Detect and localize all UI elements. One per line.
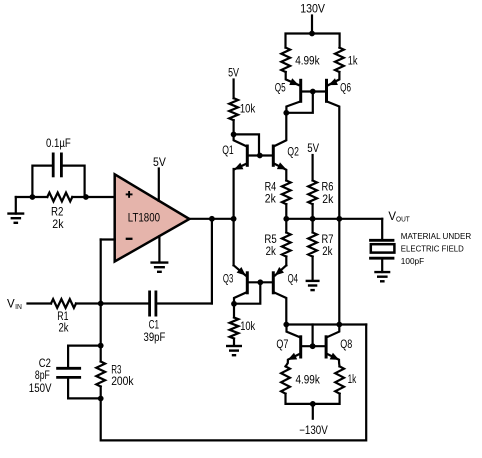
svg-text:R7: R7 [322,234,334,246]
svg-text:4.99k: 4.99k [295,56,320,68]
svg-text:Q5: Q5 [275,82,286,94]
transistor Q1 [246,145,249,167]
svg-text:ELECTRIC FIELD: ELECTRIC FIELD [401,244,464,254]
wire R4 bottom [285,204,287,219]
wire -130V stub [312,404,314,419]
wire Q1-Q2 base [249,154,272,156]
transistor Q4 [272,271,275,294]
wire Q1 collector-base tie [234,134,259,155]
svg-text:8pF: 8pF [35,370,50,382]
wire plus-input right seg [72,196,114,198]
wire 5V stub R6 [312,155,314,181]
wire Q8 collector [327,325,339,338]
node R2 right [83,194,89,200]
arrow Q8 emitter [330,353,340,360]
svg-text:IN: IN [15,302,22,311]
node R6/R7 [310,216,316,222]
resistor R7 2k [308,233,317,257]
wire Q4 emitter [275,265,286,275]
transistor Q7 [299,335,302,358]
node R4/R5 [283,216,289,222]
wire Q1 collector [234,134,246,146]
node R3/C2 top [98,343,104,349]
wire Q3 collector [234,293,246,304]
node Q8 collector [336,322,342,328]
svg-text:R4: R4 [265,181,277,193]
wire R1 to node [76,302,148,304]
op-amp minus sign [126,238,133,240]
wire top rail [286,34,340,48]
wire R3 top [100,346,102,362]
wire mid rail to VOUT [286,218,382,220]
svg-text:2k: 2k [266,246,276,258]
svg-text:OUT: OUT [396,214,410,223]
wire Q3 emitter [234,265,246,275]
node Q3-Q4 base [257,279,263,285]
wire cap branch right [63,166,85,197]
wire minus input [101,238,115,240]
svg-text:2k: 2k [265,194,276,206]
transistor Q2 [272,145,275,167]
transistor Q6 [325,79,328,103]
wire C2 bottom branch [68,379,101,399]
svg-text:Q4: Q4 [288,273,299,285]
svg-text:Q7: Q7 [276,339,288,351]
ground (R2 input) [7,214,24,223]
svg-text:150V: 150V [29,383,52,395]
wire ground stem R2 [15,197,17,214]
piezo crystal body [371,244,395,252]
svg-text:Q8: Q8 [340,339,352,351]
resistor 10k (lower) [230,318,239,339]
svg-text:R2: R2 [51,207,63,219]
wire Q3c to 10k [233,304,235,318]
resistor R2 2k [47,193,72,202]
svg-text:1k: 1k [348,374,357,386]
svg-text:MATERIAL UNDER: MATERIAL UNDER [401,231,471,241]
wire Q1 emitter [234,164,246,169]
wire C1 to feedback [157,302,212,304]
wire Q7-Q8 base tie-up [312,325,314,347]
wire cap branch left [32,166,52,197]
svg-text:−130V: −130V [299,425,328,437]
node Q5-Q6 base [310,89,316,95]
svg-text:100pF: 100pF [401,256,424,266]
svg-text:C1: C1 [149,320,159,332]
wire Q2 collector [275,113,287,146]
svg-text:5V: 5V [228,68,239,80]
wire 130V stub [311,16,313,34]
wire left rail (Q1e-out-Q3e) [233,169,235,265]
wire R7 top [312,219,314,233]
wire Q5 collector [286,102,300,113]
wire Q6 emitter [329,72,340,85]
wire R7 to ground [312,257,314,281]
node rail/VOUT [336,216,342,222]
node R3/C2 bottom [98,396,104,402]
arrow Q5 emitter [289,78,299,85]
node Q7 collector [283,322,289,328]
svg-text:V: V [7,298,15,310]
wire bottom rail [286,394,340,404]
resistor 4.99k (bottom) [281,366,290,393]
wire 10k to Q1 node [233,120,235,134]
wire Q7 collector [287,325,300,338]
wire Q5-Q6 base [302,90,325,92]
wire Q6 collector rail [327,102,339,325]
capacitor C2 plate bottom [56,376,81,379]
node Q1-Q2 base [257,153,263,159]
wire Q3-Q4 base [249,281,272,283]
arrow Q4 emitter [275,267,284,276]
wire base tie-down [286,92,313,113]
svg-text:10k: 10k [240,104,256,116]
svg-text:5V: 5V [153,157,166,169]
wire R3 bottom [100,387,102,399]
wire R6 bottom [312,204,314,219]
piezo top plate [369,239,394,242]
wire C2 top branch [68,346,101,367]
capacitor C1 plate left [148,291,151,317]
svg-text:2k: 2k [52,219,63,231]
svg-text:5V: 5V [307,143,319,155]
arrow Q3 emitter [237,267,246,276]
svg-text:0.1µF: 0.1µF [46,138,71,150]
resistor 10k (upper) [229,98,238,120]
ground (piezo) [374,272,390,281]
node top rail junction [309,31,315,37]
arrow Q6 emitter [328,78,338,85]
resistor R1 2k [51,299,76,308]
svg-text:2k: 2k [322,246,332,258]
node output/rail [231,216,237,222]
wire op-amp 5V pin [158,169,160,201]
wire feedback vertical (C1) [211,219,213,304]
svg-text:R5: R5 [264,234,276,246]
wire inverting vertical [100,240,102,346]
svg-text:200k: 200k [111,376,134,388]
wire Q2 emitter [275,164,286,181]
capacitor 0.1uF plate left [52,153,55,178]
wire Q4 collector [275,293,287,325]
resistor R4 2k [282,181,291,205]
resistor 4.99k (top) [281,48,290,72]
svg-text:10k: 10k [240,321,255,333]
svg-text:Q1: Q1 [222,145,234,157]
wire Q3 base tie [234,282,260,303]
resistor R6 2k [308,181,317,205]
node Q3 collector tie [231,301,237,307]
svg-text:Q2: Q2 [287,147,299,159]
svg-text:Q6: Q6 [340,82,351,94]
op-amp plus sign [126,191,133,198]
svg-text:4.99k: 4.99k [296,375,321,387]
resistor R5 2k [282,233,291,257]
wire VIN lead [28,302,52,304]
wire plus-input left seg [16,196,48,198]
node Q7-Q8 base [310,343,316,349]
resistor R3 200k [96,362,105,387]
svg-text:R1: R1 [57,311,68,323]
op-amp U1 LT1800 body [115,174,190,261]
wire Q5 emitter [286,72,299,85]
resistor 1k (bottom) [335,366,344,393]
node output/C1 feedback [209,216,215,222]
node Q1 collector [231,132,237,138]
svg-text:Q3: Q3 [223,273,233,285]
svg-text:130V: 130V [300,4,325,16]
wire piezo to ground [381,260,383,273]
arrow Q7 emitter [288,353,298,360]
node VIN/inverting [98,301,104,307]
wire VOUT drop [381,219,383,239]
wire Q8 emitter [327,354,339,366]
arrow Q1 emitter [234,163,244,170]
node bottom rail [310,401,316,407]
wire feedback loop [101,325,367,441]
svg-text:R3: R3 [111,365,121,377]
svg-text:LT1800: LT1800 [128,212,160,224]
node R2 left [30,194,36,200]
wire op-amp gnd pin [158,236,160,262]
ground (op-amp) [150,263,168,272]
wire Q7-Q8 base [302,345,324,347]
transistor Q5 [299,79,302,103]
wire op-amp output [189,218,233,220]
ground (lower 10k) [226,346,242,355]
wire R5 to Q4 emitter [285,257,287,266]
wire 5V stub to 10k [233,80,235,99]
capacitor C2 plate top [56,367,81,370]
svg-text:C2: C2 [39,358,51,370]
wire Q4c horizontal [286,323,366,325]
arrow Q2 emitter [277,162,287,169]
wire 10k to ground [233,339,235,346]
capacitor 0.1uF plate right [60,153,63,178]
svg-text:1k: 1k [348,56,358,68]
capacitor C1 plate right [154,291,157,317]
svg-text:R6: R6 [322,181,334,193]
transistor Q8 [325,335,328,358]
wire Q7 emitter [286,354,300,366]
transistor Q3 [246,271,249,294]
resistor 1k (top) [335,48,344,72]
svg-text:2k: 2k [59,323,69,335]
svg-text:2k: 2k [322,194,333,206]
node Q5 collector/base tie [283,110,289,116]
wire R5 top [285,219,287,233]
ground (R7) [306,281,320,290]
svg-text:39pF: 39pF [144,332,166,344]
piezo bottom plate [369,257,394,260]
